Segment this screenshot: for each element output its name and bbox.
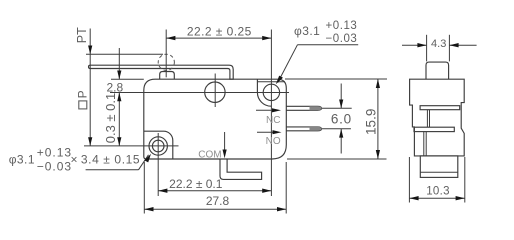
lever arm bbox=[89, 65, 234, 79]
dimension 10.3 line bbox=[409, 196, 464, 200]
label OP square bbox=[79, 101, 87, 109]
svg-text:3.4 ± 0.15: 3.4 ± 0.15 bbox=[81, 152, 140, 166]
NO pointer arrow bbox=[257, 130, 282, 134]
NC pin extension line bbox=[322, 107, 352, 109]
NC pin tip bbox=[310, 106, 322, 110]
svg-text:22.2 ± 0.1: 22.2 ± 0.1 bbox=[169, 177, 223, 191]
dimension phi3.1 leader (top) bbox=[276, 45, 358, 85]
dimension 2.8 / 0.3 lines bbox=[117, 48, 121, 146]
side view body outline bbox=[410, 79, 465, 156]
svg-text:+0.13: +0.13 bbox=[326, 20, 358, 32]
dimension 22.2±0.1 line bbox=[158, 189, 271, 193]
svg-text:+0.13: +0.13 bbox=[37, 145, 72, 159]
svg-text:22.2 ± 0.25: 22.2 ± 0.25 bbox=[187, 25, 252, 39]
svg-text:10.3: 10.3 bbox=[426, 185, 450, 197]
svg-text:COM: COM bbox=[198, 149, 221, 160]
dashed circle (lever hinge position) bbox=[158, 54, 174, 70]
side view NC terminal bar bbox=[420, 106, 460, 110]
svg-text:NO: NO bbox=[266, 136, 281, 147]
dimension 22.2±0.25 line bbox=[166, 36, 271, 40]
dimension phi3.1x3.4 leader (bottom left) bbox=[86, 154, 151, 170]
NO pin extension line bbox=[322, 128, 351, 130]
svg-text:27.8: 27.8 bbox=[206, 194, 230, 208]
side view COM terminal stem bbox=[424, 132, 426, 156]
free position line bbox=[86, 53, 163, 55]
svg-text:PT: PT bbox=[75, 27, 89, 43]
svg-text:15.9: 15.9 bbox=[364, 109, 379, 135]
dimension 4.3 extension lines bbox=[426, 35, 428, 62]
bottom-left hole horizontal center line bbox=[84, 145, 179, 147]
side view NC terminal stem bbox=[427, 110, 429, 128]
top-right corner step line bbox=[257, 81, 285, 83]
body top extension line bbox=[111, 78, 144, 80]
operating position line bbox=[110, 92, 289, 94]
svg-text:4.3: 4.3 bbox=[431, 38, 446, 50]
svg-text:2.8: 2.8 bbox=[106, 80, 123, 94]
dimension 15.9 line bbox=[376, 79, 380, 159]
dimension 27.8 line bbox=[144, 207, 286, 211]
NC terminal pin bbox=[286, 106, 321, 110]
svg-text:P: P bbox=[76, 90, 90, 98]
NO terminal pin bbox=[286, 127, 321, 131]
side view NO terminal bar bbox=[414, 127, 454, 131]
dimension PT / OP line bbox=[88, 29, 92, 146]
bottom-left hole boss bbox=[144, 131, 173, 159]
dimension 22.2±0.25 extension lines bbox=[165, 30, 167, 78]
svg-text:NC: NC bbox=[266, 115, 280, 126]
svg-text:−0.03: −0.03 bbox=[326, 33, 358, 45]
svg-text:0.3 ± 0.1: 0.3 ± 0.1 bbox=[103, 93, 118, 144]
side view plunger bbox=[426, 62, 449, 79]
dimension 15.9 extension lines bbox=[285, 78, 387, 80]
COM terminal bbox=[220, 159, 262, 179]
side view base cap bbox=[420, 156, 458, 178]
COM label arrow bbox=[223, 132, 227, 158]
middle circle center line bbox=[214, 74, 216, 108]
svg-text:φ3.1: φ3.1 bbox=[9, 152, 35, 166]
NC pointer arrow bbox=[256, 108, 281, 112]
top-right hole center line bbox=[270, 30, 272, 197]
dimension 10.3 extension lines bbox=[408, 157, 410, 203]
top-right hole boss bbox=[257, 79, 271, 106]
middle circle hole bbox=[205, 82, 225, 102]
svg-text:−0.03: −0.03 bbox=[37, 159, 72, 173]
bottom-left hole outer bbox=[149, 137, 167, 155]
dimension 4.3 line bbox=[402, 43, 477, 47]
dimension 6.0 lines bbox=[339, 84, 343, 154]
plunger bbox=[160, 72, 175, 80]
NO pin tip bbox=[310, 127, 322, 131]
bottom-left hole vertical center line bbox=[157, 133, 159, 196]
svg-text:φ3.1: φ3.1 bbox=[294, 24, 320, 38]
svg-text:×: × bbox=[71, 153, 78, 167]
side view base cap inner line bbox=[420, 171, 458, 173]
top-right hole bbox=[263, 84, 279, 100]
dimension 27.8 extension lines bbox=[143, 162, 145, 214]
bottom-left hole inner bbox=[152, 140, 164, 152]
switch body outline bbox=[144, 79, 286, 159]
svg-text:6.0: 6.0 bbox=[331, 112, 352, 127]
